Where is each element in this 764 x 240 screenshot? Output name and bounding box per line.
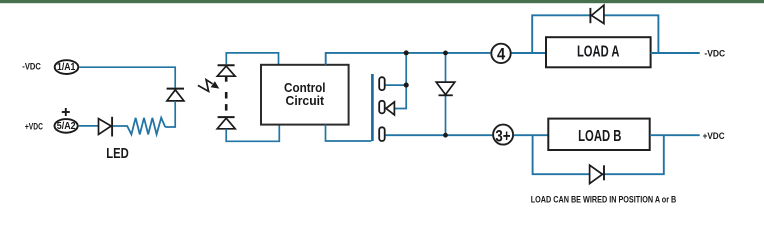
opto upper photodiode — [217, 65, 235, 76]
LOAD A box — [546, 37, 651, 67]
header green bar — [0, 0, 764, 3]
wire LOAD B to +VDC — [650, 134, 700, 136]
terminal 5/A2 — [55, 119, 78, 133]
plus sign above 5/A2 — [62, 108, 70, 116]
svg-text:-VDC: -VDC — [22, 62, 41, 72]
wire from 1/A1 to LED branch — [79, 67, 175, 87]
LED diode D2 (vertical) — [167, 89, 184, 101]
resistor R1 — [113, 118, 165, 135]
opto dashed link — [225, 76, 228, 110]
wire 5/A2 to diode — [79, 125, 99, 127]
terminal 3+ — [493, 125, 513, 146]
bypass loop A — [532, 15, 658, 53]
opto lower photodiode — [217, 117, 235, 129]
node dot at Q1 wire — [404, 83, 409, 88]
svg-text:LOAD B: LOAD B — [578, 128, 621, 145]
series diode D1 — [99, 117, 113, 137]
svg-text:-VDC: -VDC — [704, 49, 725, 60]
wire LED to resistor corner — [165, 101, 175, 127]
bypass loop B — [533, 135, 664, 174]
output bar Q1 — [379, 77, 385, 90]
svg-text:LED: LED — [106, 146, 129, 162]
wire bar Q1 to node — [386, 84, 407, 86]
wire LOAD A to -VDC — [651, 52, 700, 54]
diode across LOAD B — [590, 165, 604, 183]
svg-text:4: 4 — [497, 45, 506, 64]
wire opto bottom to control box — [226, 125, 279, 142]
svg-text:+VDC: +VDC — [25, 121, 43, 131]
wire terminal 4 to LOAD A — [512, 52, 547, 54]
freewheel diode D3 — [436, 82, 455, 95]
body diode triangle at Q2 — [386, 102, 394, 115]
gate bar (thick) — [371, 74, 374, 141]
svg-text:5/A2: 5/A2 — [57, 121, 76, 132]
bottom rail from Q3 to terminal 3+ — [386, 134, 493, 136]
terminal 1/A1 — [55, 60, 79, 74]
node dot on top rail at x408 — [404, 50, 409, 55]
svg-text:3+: 3+ — [495, 126, 510, 145]
optocoupler photon arrow — [198, 80, 219, 92]
freewheel diode D3 branch — [445, 53, 447, 135]
vertical wire from top rail to body-diode — [394, 53, 406, 109]
output bar Q2 with body arrow — [379, 101, 385, 114]
wire control box bottom to gate bar — [326, 125, 372, 141]
node dot top rail x445 — [443, 51, 448, 56]
control circuit box U1 — [261, 65, 349, 125]
svg-text:Circuit: Circuit — [286, 93, 325, 108]
output bar Q3 — [379, 127, 385, 141]
svg-text:1/A1: 1/A1 — [57, 62, 76, 73]
node dot bottom rail x445 — [443, 133, 448, 138]
terminal 4 — [491, 44, 510, 64]
LOAD B box — [548, 119, 649, 150]
top rail from control box to terminal 4 — [326, 53, 491, 65]
svg-text:+VDC: +VDC — [703, 131, 725, 142]
wire opto top to control box — [226, 53, 278, 65]
svg-text:LOAD CAN BE WIRED IN POSITION: LOAD CAN BE WIRED IN POSITION A or B — [531, 194, 677, 205]
wire terminal 3+ to LOAD B — [514, 134, 549, 136]
diode across LOAD A — [590, 5, 604, 23]
svg-text:LOAD A: LOAD A — [577, 43, 620, 60]
